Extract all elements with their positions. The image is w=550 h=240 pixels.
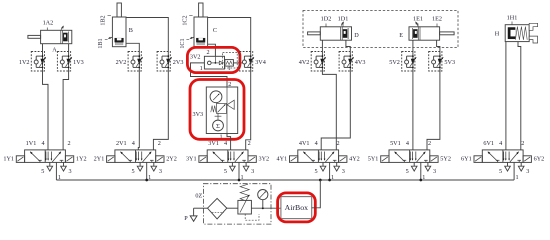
wire C cap-end port to 3V2 port 2 <box>208 44 216 56</box>
wire A cap-end port to 1V3 <box>68 44 70 52</box>
svg-text:4: 4 <box>499 140 502 147</box>
svg-text:5: 5 <box>406 168 409 175</box>
flow control valve 4V3 <box>339 52 352 72</box>
svg-text:2: 2 <box>521 140 524 147</box>
pressure sensor of 3V3 <box>213 120 224 131</box>
svg-text:6V1: 6V1 <box>483 140 494 147</box>
svg-text:2V3: 2V3 <box>173 59 184 66</box>
wire 3V4 to 3V1 port 2 <box>246 71 251 150</box>
wire 4V3 to 4V1 port 4 <box>321 71 350 150</box>
highlight box around 3V2 <box>187 47 240 72</box>
cylinder D (1D1, 1D2) <box>320 27 351 40</box>
wire 1V2 to 1V1 port 4 <box>43 71 49 150</box>
svg-text:5: 5 <box>499 168 502 175</box>
svg-text:5V3: 5V3 <box>444 59 455 66</box>
junction 3V1 <box>238 179 241 182</box>
svg-text:5V1: 5V1 <box>390 140 401 147</box>
cylinder C (1C1, 1C2) <box>194 17 208 47</box>
svg-text:4V1: 4V1 <box>299 140 310 147</box>
svg-text:D: D <box>354 32 359 39</box>
svg-text:4: 4 <box>406 140 409 147</box>
svg-text:4: 4 <box>41 140 44 147</box>
svg-text:5Y1: 5Y1 <box>368 155 379 162</box>
svg-text:1E1: 1E1 <box>413 16 423 23</box>
AirBox supply unit <box>281 197 312 219</box>
gripper H (1H1) <box>505 25 529 42</box>
svg-text:5: 5 <box>132 168 135 175</box>
air service unit 0Z (dash-dot frame) <box>203 184 271 224</box>
wire D cap-end port to 4V3 <box>346 40 350 51</box>
svg-text:1V3: 1V3 <box>73 59 84 66</box>
flow control valve 5V2 <box>402 52 415 72</box>
svg-text:0Z: 0Z <box>195 193 202 200</box>
svg-text:2: 2 <box>158 140 161 147</box>
svg-text:3V4: 3V4 <box>255 59 266 66</box>
flow control valve 1V3 <box>57 52 70 72</box>
silencer of 3V2 <box>225 60 234 67</box>
wire 3V2 port 1 down to 3V3 port 2 <box>191 63 228 87</box>
valve 6V1 (5/2 way, pilots 6Y1 6Y2) <box>482 150 523 163</box>
wire filter to regulator <box>227 207 238 209</box>
svg-text:1: 1 <box>200 65 203 72</box>
svg-text:3: 3 <box>69 168 72 175</box>
flow control valve 1V2 <box>31 52 44 72</box>
wire 5V2 to 5V1 port 4 <box>412 71 414 150</box>
pressure gauge <box>262 207 264 209</box>
svg-text:1V1: 1V1 <box>26 140 37 147</box>
valve 1V1 (5/2 way, ports 4 2 5 1 3, pilots 1Y1 1Y2) <box>25 150 66 163</box>
svg-text:3V2: 3V2 <box>190 54 201 61</box>
svg-text:3V3: 3V3 <box>192 111 203 118</box>
cylinder B (1B1, 1B2) <box>112 17 126 47</box>
valve 3V1 (5/2 way, pilots 3Y1 3Y2) <box>207 150 248 163</box>
svg-text:4Y2: 4Y2 <box>349 155 360 162</box>
cylinder E (1E1, 1E2) <box>409 27 440 40</box>
svg-text:2V2: 2V2 <box>116 59 127 66</box>
flow control valve 2V2 <box>128 52 141 72</box>
svg-text:E: E <box>399 32 403 39</box>
svg-text:5: 5 <box>41 168 44 175</box>
svg-text:4V3: 4V3 <box>355 59 366 66</box>
flow control valve 5V3 <box>429 52 442 72</box>
highlight box around AirBox <box>278 193 316 222</box>
svg-text:3V1: 3V1 <box>208 140 219 147</box>
svg-text:1: 1 <box>228 66 231 72</box>
svg-text:1D1: 1D1 <box>338 16 349 23</box>
wire B rod-end port to 2V3 <box>126 18 168 52</box>
wire A rod-end port to 1V2 <box>42 44 44 52</box>
svg-text:1V2: 1V2 <box>19 59 30 66</box>
svg-text:4: 4 <box>315 140 318 147</box>
valve 5V1 (5/2 way, pilots 5Y1 5Y2) <box>389 150 430 163</box>
flow control valve 3V4 <box>240 52 253 72</box>
pressure regulator 0Z <box>238 200 252 214</box>
wire E cap-end port to 5V2 <box>412 40 414 51</box>
svg-text:2: 2 <box>67 140 70 147</box>
valve 4V1 (5/2 way, pilots 4Y1 4Y2) <box>298 150 339 163</box>
wire E rod-end port to 5V3 <box>437 40 440 51</box>
svg-text:2: 2 <box>206 49 209 56</box>
svg-text:AirBox: AirBox <box>285 203 308 212</box>
supply bus line (port 1 manifold) <box>56 179 514 181</box>
wire D rod-end port to 4V2 <box>321 40 323 51</box>
wire 1V3 to 1V1 port 2 <box>63 71 69 150</box>
wire 5V3 to 5V1 port 2 <box>427 71 440 150</box>
junction 4V1 <box>328 179 331 182</box>
svg-text:5: 5 <box>314 168 317 175</box>
svg-text:6Y1: 6Y1 <box>461 155 472 162</box>
svg-text:3: 3 <box>251 168 254 175</box>
svg-text:3: 3 <box>526 168 529 175</box>
svg-text:4: 4 <box>132 140 135 147</box>
svg-text:2Y2: 2Y2 <box>166 155 177 162</box>
svg-text:2: 2 <box>228 81 231 88</box>
svg-text:2: 2 <box>428 140 431 147</box>
cylinder A (1A2) <box>41 30 72 43</box>
flow control valve 2V3 <box>157 52 170 72</box>
wire 2V3 to 2V1 port 2 <box>153 71 168 150</box>
valve 2V1 (5/2 way, pilots 2Y1 2Y2) <box>115 150 156 163</box>
junction 2V1 <box>145 179 148 182</box>
pressure regulator unit 3V3 with gauge <box>206 87 237 134</box>
wire source to filter <box>194 207 208 209</box>
svg-text:1H1: 1H1 <box>507 15 518 22</box>
svg-text:1C2: 1C2 <box>182 15 189 25</box>
wire C rod-end port to 3V4 <box>208 18 251 52</box>
svg-text:4Y1: 4Y1 <box>277 155 288 162</box>
svg-text:4V2: 4V2 <box>299 59 310 66</box>
svg-text:2: 2 <box>337 140 340 147</box>
wire 4V2 to 4V1 port 2 <box>322 71 336 150</box>
svg-text:1: 1 <box>516 174 519 181</box>
junction 5V1 <box>419 179 422 182</box>
wire 3V3 to 3V1 port 4 <box>227 134 231 150</box>
svg-text:B: B <box>129 27 133 34</box>
wire B cap-end port to 2V2 <box>126 43 139 51</box>
svg-text:2V1: 2V1 <box>116 140 127 147</box>
svg-text:1B1: 1B1 <box>97 38 104 48</box>
svg-text:1Y1: 1Y1 <box>3 155 14 162</box>
wire H port to 6V1 port 4 <box>505 42 507 150</box>
svg-text:5Y2: 5Y2 <box>440 155 451 162</box>
filter with water separator <box>208 198 227 219</box>
svg-text:6Y2: 6Y2 <box>534 155 545 162</box>
svg-text:1Y2: 1Y2 <box>76 155 87 162</box>
svg-text:Σ: Σ <box>216 123 220 130</box>
svg-text:3: 3 <box>433 168 436 175</box>
wire regulator to gauge node <box>251 207 281 209</box>
svg-text:1B2: 1B2 <box>100 15 107 25</box>
svg-text:3Y2: 3Y2 <box>259 155 270 162</box>
wire 2V2 to 2V1 port 4 <box>138 71 139 150</box>
wire AirBox to bus <box>312 180 321 208</box>
flow control valve 4V2 <box>311 52 324 72</box>
svg-text:2Y1: 2Y1 <box>94 155 105 162</box>
valve 3V2 (2/2 valve with silencer) <box>204 56 224 69</box>
svg-text:H: H <box>495 31 500 38</box>
svg-text:3Y1: 3Y1 <box>186 155 197 162</box>
svg-text:1A2: 1A2 <box>43 20 54 27</box>
svg-text:3: 3 <box>159 168 162 175</box>
dashed enclosure around cylinders D and E <box>303 11 458 48</box>
svg-text:3: 3 <box>342 168 345 175</box>
svg-text:4: 4 <box>224 140 227 147</box>
wire H port to 6V1 port 2 <box>518 42 521 150</box>
junction air supply <box>319 179 322 182</box>
wire 3V2 silencer to 3V4 node <box>233 62 244 64</box>
svg-text:1D2: 1D2 <box>321 16 332 23</box>
svg-text:2: 2 <box>248 140 251 147</box>
svg-text:P: P <box>184 215 188 222</box>
svg-text:1E2: 1E2 <box>432 16 442 23</box>
compressed air source P <box>190 216 197 221</box>
svg-text:C: C <box>213 27 217 34</box>
svg-text:5V2: 5V2 <box>389 59 400 66</box>
svg-text:A: A <box>52 47 57 54</box>
svg-text:1C1: 1C1 <box>179 38 186 48</box>
highlight box around 3V3 <box>190 80 244 140</box>
svg-text:5: 5 <box>224 168 227 175</box>
